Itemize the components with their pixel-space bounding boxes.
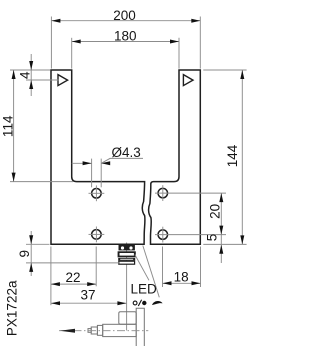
svg-text:9: 9 [17, 250, 32, 258]
wire [126, 243, 128, 331]
svg-text:20: 20 [207, 204, 222, 219]
svg-text:144: 144 [225, 144, 240, 167]
svg-text:4: 4 [17, 71, 32, 79]
frame left piece [51, 70, 145, 244]
svg-text:22: 22 [65, 270, 80, 285]
side view [88, 308, 144, 346]
hole L2 [92, 230, 102, 240]
side view centerline [59, 330, 148, 332]
hole crosshairs [89, 185, 227, 242]
hole R2 [158, 230, 168, 240]
svg-text:114: 114 [1, 115, 16, 137]
side view LED dome [119, 312, 136, 325]
LED leader lines [135, 246, 160, 298]
node centerline37 [126, 243, 128, 331]
dimension 20 [220, 193, 222, 235]
hole R1 [158, 188, 168, 198]
hole L1 [92, 189, 102, 199]
dimension 114 [10, 70, 73, 182]
LED state symbols o/filled [133, 301, 137, 305]
dimension 5 [220, 235, 222, 263]
beam direction arrow [60, 329, 75, 333]
dimension 22 [51, 247, 96, 306]
svg-text:5: 5 [204, 234, 219, 242]
dimension 37 [51, 302, 126, 304]
dimension 9 [26, 231, 119, 276]
dimension dia 4.3 [72, 158, 143, 187]
dimension 144 [203, 70, 246, 244]
connector M8 front [118, 245, 136, 265]
teach swoosh arrow [152, 301, 163, 305]
dimension 200 [51, 17, 200, 69]
svg-text:PX1722a: PX1722a [4, 280, 19, 336]
svg-text:18: 18 [174, 270, 189, 285]
optical axis triangle right [183, 75, 193, 86]
frame right piece [149, 70, 201, 244]
svg-text:LED: LED [130, 282, 157, 297]
side view flange [97, 325, 102, 335]
svg-text:Ø4.3: Ø4.3 [111, 145, 140, 160]
side view plug [91, 327, 97, 334]
side view frame section [136, 308, 144, 346]
svg-text:180: 180 [114, 29, 137, 44]
optical axis triangle left [58, 75, 68, 86]
dimension 180 [72, 38, 179, 69]
svg-text:37: 37 [80, 288, 95, 303]
dimension 4 [26, 54, 59, 96]
dimension 18 [163, 247, 201, 288]
svg-text:200: 200 [113, 8, 136, 23]
side view body [103, 324, 137, 336]
